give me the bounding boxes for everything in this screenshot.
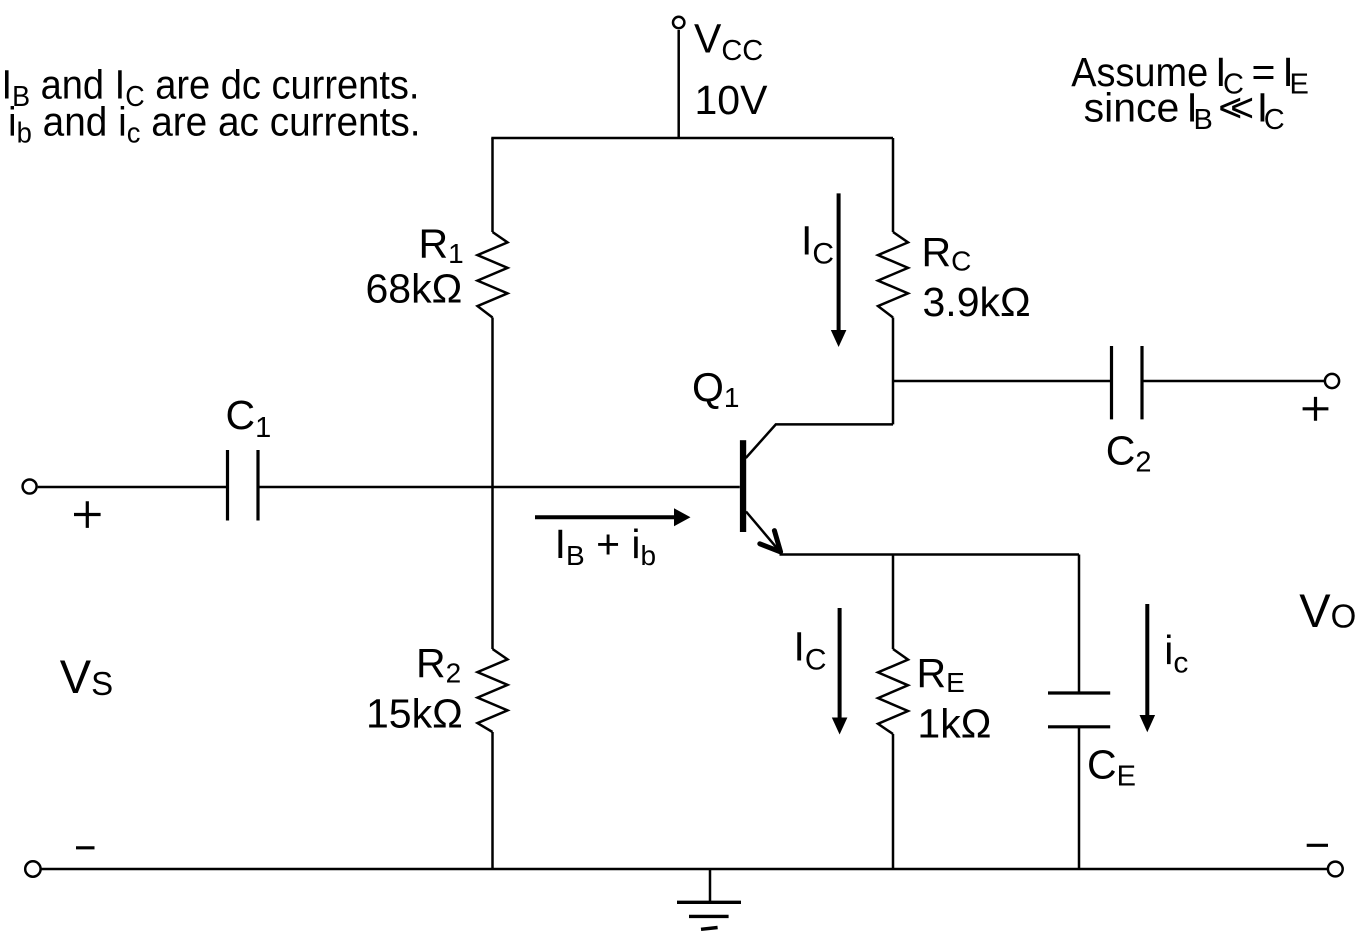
capacitor C2 bbox=[1112, 346, 1143, 419]
arrow IB + ib bbox=[535, 508, 691, 526]
transistor Q1 collector bbox=[746, 424, 893, 458]
label plus input bbox=[74, 501, 101, 528]
wire input lead bbox=[38, 486, 228, 489]
wire CE lower lead bbox=[1078, 727, 1081, 869]
note text line 3: Assume IC = IE bbox=[1071, 49, 1309, 100]
svg-text:15kΩ: 15kΩ bbox=[366, 690, 463, 736]
wire CE upper lead bbox=[1078, 555, 1081, 694]
wire RE lower lead bbox=[892, 734, 895, 869]
svg-text:1kΩ: 1kΩ bbox=[917, 701, 991, 747]
wire RC upper lead bbox=[892, 138, 895, 232]
wire VCC stub bbox=[677, 30, 680, 138]
resistor RC bbox=[878, 232, 908, 318]
terminal output bbox=[1325, 374, 1339, 388]
svg-text:ib and ic are ac currents.: ib and ic are ac currents. bbox=[8, 98, 421, 149]
svg-text:since: since bbox=[1084, 85, 1180, 131]
capacitor CE bbox=[1048, 693, 1110, 727]
label plus output bbox=[1303, 397, 1329, 421]
wire bottom rail bbox=[42, 868, 1328, 871]
transistor Q1 emitter arrowhead bbox=[760, 531, 781, 552]
resistor R2 bbox=[478, 649, 508, 732]
wire top rail bbox=[491, 137, 893, 140]
ground bbox=[677, 869, 741, 929]
arrow ic bbox=[1140, 604, 1156, 732]
wire collector to C2 bbox=[893, 380, 1112, 383]
terminal bottom left bbox=[25, 861, 40, 876]
wire R1 lower lead to base node bbox=[491, 318, 494, 650]
terminal input bbox=[23, 480, 37, 494]
svg-text:10V: 10V bbox=[695, 77, 769, 123]
transistor Q1 emitter bbox=[746, 512, 780, 553]
label minus left bbox=[76, 846, 95, 849]
wire C2 to output bbox=[1142, 380, 1324, 383]
svg-text:B: B bbox=[1194, 104, 1213, 136]
resistor RE bbox=[878, 649, 908, 734]
transistor Q1 base bar bbox=[740, 440, 746, 532]
terminal VCC bbox=[673, 17, 684, 28]
arrow IC bottom bbox=[832, 608, 848, 735]
label minus right bbox=[1307, 844, 1328, 847]
wire R1 upper lead bbox=[491, 138, 494, 232]
note text line 4: since IB << IC bbox=[1084, 85, 1285, 136]
svg-text:<: < bbox=[1230, 85, 1254, 131]
wire emitter rail bbox=[780, 553, 1080, 556]
capacitor C1 bbox=[228, 450, 259, 521]
wire base lead bbox=[258, 486, 740, 489]
resistor R1 bbox=[478, 232, 508, 318]
wire RE upper lead bbox=[892, 555, 895, 650]
svg-text:68kΩ: 68kΩ bbox=[366, 266, 463, 312]
wire R2 lower lead bbox=[491, 732, 494, 869]
svg-text:C: C bbox=[1264, 104, 1285, 136]
arrow IC top bbox=[831, 193, 847, 347]
svg-text:E: E bbox=[1290, 69, 1309, 101]
terminal bottom right bbox=[1328, 862, 1343, 877]
svg-text:3.9kΩ: 3.9kΩ bbox=[923, 279, 1031, 325]
wire RC lower lead to collector bbox=[892, 318, 895, 425]
